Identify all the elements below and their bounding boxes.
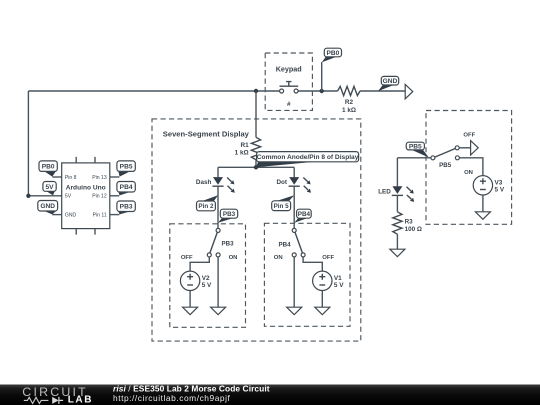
svg-text:Pin 11: Pin 11 (93, 213, 107, 219)
resistor R2 1k (338, 86, 360, 95)
flag GND (378, 76, 399, 91)
svg-text:Pin 2: Pin 2 (198, 203, 214, 210)
svg-text:ON: ON (464, 170, 473, 176)
wire: vertical left riser (27, 91, 29, 196)
flag PB3 (117, 201, 135, 214)
wire: R2 to ground (360, 90, 405, 92)
svg-text:ON: ON (274, 255, 283, 261)
wire: R3 to ground (396, 234, 398, 249)
SPDT switch PB4 (292, 228, 305, 257)
voltage source V3 5V (473, 176, 505, 195)
svg-text:5V: 5V (46, 184, 55, 191)
svg-text:R2: R2 (345, 99, 354, 106)
svg-text:Dot: Dot (277, 179, 288, 186)
node: R1 to rail junction (254, 165, 258, 169)
wire: OFF throw to side ground (459, 147, 470, 149)
flag PB3 (218, 209, 238, 223)
svg-text:OFF: OFF (463, 132, 475, 138)
svg-text:R1: R1 (241, 142, 250, 149)
wire: Dash LED column (217, 167, 219, 177)
svg-text:PB5: PB5 (409, 143, 422, 150)
pin Pin 12 stub (110, 195, 120, 197)
svg-text:Seven-Segment Display: Seven-Segment Display (163, 129, 250, 138)
flag PB4 (117, 182, 135, 196)
svg-text:Pin 5: Pin 5 (274, 203, 290, 210)
ground under ON throw (211, 307, 226, 315)
node: junction to PB0 flag stub (320, 89, 324, 93)
svg-text:PB3: PB3 (223, 211, 236, 218)
Arduino Uno body (62, 163, 110, 229)
svg-text:5V: 5V (65, 194, 72, 200)
keypad dashed box (265, 53, 312, 110)
svg-text:V2: V2 (202, 275, 210, 282)
svg-text:Pin 8: Pin 8 (65, 175, 77, 181)
svg-text:ON: ON (229, 255, 238, 261)
voltage source V2 5V (180, 271, 212, 290)
svg-text:PB5: PB5 (120, 164, 133, 171)
svg-text:Common Anode/Pin 8 of Display: Common Anode/Pin 8 of Display (257, 154, 359, 161)
resistor R3 100 ohm (393, 212, 402, 234)
svg-text:V3: V3 (495, 179, 503, 186)
wire: R1 bottom lead (255, 160, 257, 168)
LED Dash: diode (212, 177, 234, 193)
pin GND stub (52, 214, 61, 216)
svg-text:#: # (287, 101, 291, 108)
svg-text:100 Ω: 100 Ω (405, 226, 422, 233)
pin stubs bottom (76, 229, 95, 235)
flag PB0 (322, 48, 342, 62)
wire: anode branch rail (218, 166, 294, 168)
junction at riser corner (26, 194, 30, 198)
wire: V3 to ground (482, 195, 484, 212)
wire: V1 to ground (321, 291, 323, 308)
wire: top horizontal run to keypad (28, 90, 279, 92)
flag 5V (43, 182, 56, 196)
wire: OFF throw to V2 (190, 257, 209, 271)
wire: down to LED (396, 158, 398, 187)
node: junction to R1 branch (254, 89, 258, 93)
svg-text:PB4: PB4 (298, 211, 311, 218)
svg-text:Arduino Uno: Arduino Uno (66, 184, 106, 191)
ground under V3 (475, 212, 490, 220)
svg-text:Keypad: Keypad (276, 65, 302, 74)
svg-text:1 kΩ: 1 kΩ (235, 150, 249, 157)
svg-text:OFF: OFF (322, 255, 334, 261)
wire: keypad switch to R2 (298, 90, 338, 92)
svg-text:5 V: 5 V (334, 282, 344, 289)
wire: ON throw to ground (217, 257, 219, 307)
svg-text:OFF: OFF (181, 255, 193, 261)
SPDT switch PB5 (431, 146, 460, 160)
LED LED: diode (392, 186, 414, 202)
wire: Arduino 5V pin to riser (28, 195, 61, 197)
flag PB4 (294, 209, 311, 223)
svg-text:GND: GND (40, 203, 55, 210)
flag Pin 5 (272, 195, 295, 210)
flag PB5 (406, 142, 429, 157)
wire: Dot LED column (293, 167, 295, 177)
ground under V1 (315, 307, 330, 315)
svg-text:PB0: PB0 (326, 50, 339, 57)
wire: V2 to ground (189, 291, 191, 308)
pin Pin 11 stub (110, 214, 120, 216)
pin Pin 13 stub (110, 176, 120, 178)
flag Common Anode/Pin 8 of Display (256, 152, 359, 168)
svg-text:PB3: PB3 (120, 204, 133, 211)
svg-text:Dash: Dash (196, 179, 212, 186)
svg-text:LAB: LAB (68, 395, 93, 405)
svg-text:http://circuitlab.com/ch9apjf: http://circuitlab.com/ch9apjf (113, 393, 231, 403)
wire: OFF throw to V1 (303, 257, 322, 271)
wire: PB5 horizontal (397, 157, 431, 159)
ground under V2 (183, 307, 198, 315)
flag Pin 2 (197, 195, 219, 211)
flag PB0 (39, 161, 57, 177)
pushbutton switch # (SPST momentary) (280, 82, 299, 108)
svg-text:PB3: PB3 (222, 241, 235, 248)
svg-text:R3: R3 (405, 218, 414, 225)
svg-text:PB4: PB4 (120, 184, 133, 191)
svg-text:GND: GND (65, 213, 77, 219)
ground (right-pointing) at end of R2 net (405, 84, 413, 98)
wire: ON throw to ground (293, 257, 295, 307)
svg-text:1 kΩ: 1 kΩ (342, 107, 356, 114)
wire: LED cathode to R3 (396, 195, 398, 211)
svg-text:risi / ESE350 Lab 2 Morse Code: risi / ESE350 Lab 2 Morse Code Circuit (113, 383, 270, 393)
ground (right-pointing) on OFF throw (471, 141, 479, 155)
svg-text:PB0: PB0 (42, 164, 55, 171)
svg-text:5 V: 5 V (495, 187, 505, 194)
pin stubs top (76, 157, 95, 163)
wire: ON throw to V3 (459, 158, 483, 176)
ground under PB4 ON (287, 307, 302, 315)
logo resistor glyph (24, 397, 49, 403)
svg-text:V1: V1 (334, 275, 342, 282)
logo diode glyph (52, 397, 58, 404)
wire: Dash LED cathode down to switch pole (217, 186, 219, 228)
svg-text:Pin 12: Pin 12 (92, 194, 107, 200)
svg-text:PB5: PB5 (439, 162, 452, 169)
svg-text:Pin 13: Pin 13 (92, 175, 107, 181)
svg-text:GND: GND (383, 78, 398, 85)
LED Dot: diode (289, 177, 311, 193)
svg-text:PB4: PB4 (279, 242, 292, 249)
SPDT switch PB3 (207, 228, 220, 257)
wire: PB0 flag stub (321, 62, 323, 91)
svg-text:5 V: 5 V (202, 282, 212, 289)
voltage source V1 5V (313, 271, 345, 290)
pin labels (65, 175, 107, 219)
wire: R1 top lead from top net (255, 91, 257, 137)
pin Pin 8 stub (52, 176, 61, 178)
flag PB5 (117, 161, 135, 177)
resistor R1 1k (251, 137, 260, 159)
svg-text:LED: LED (378, 188, 391, 195)
ground under R3 (390, 249, 405, 257)
wire: Dot LED cathode down to switch pole (293, 186, 295, 228)
flag GND (38, 201, 58, 215)
